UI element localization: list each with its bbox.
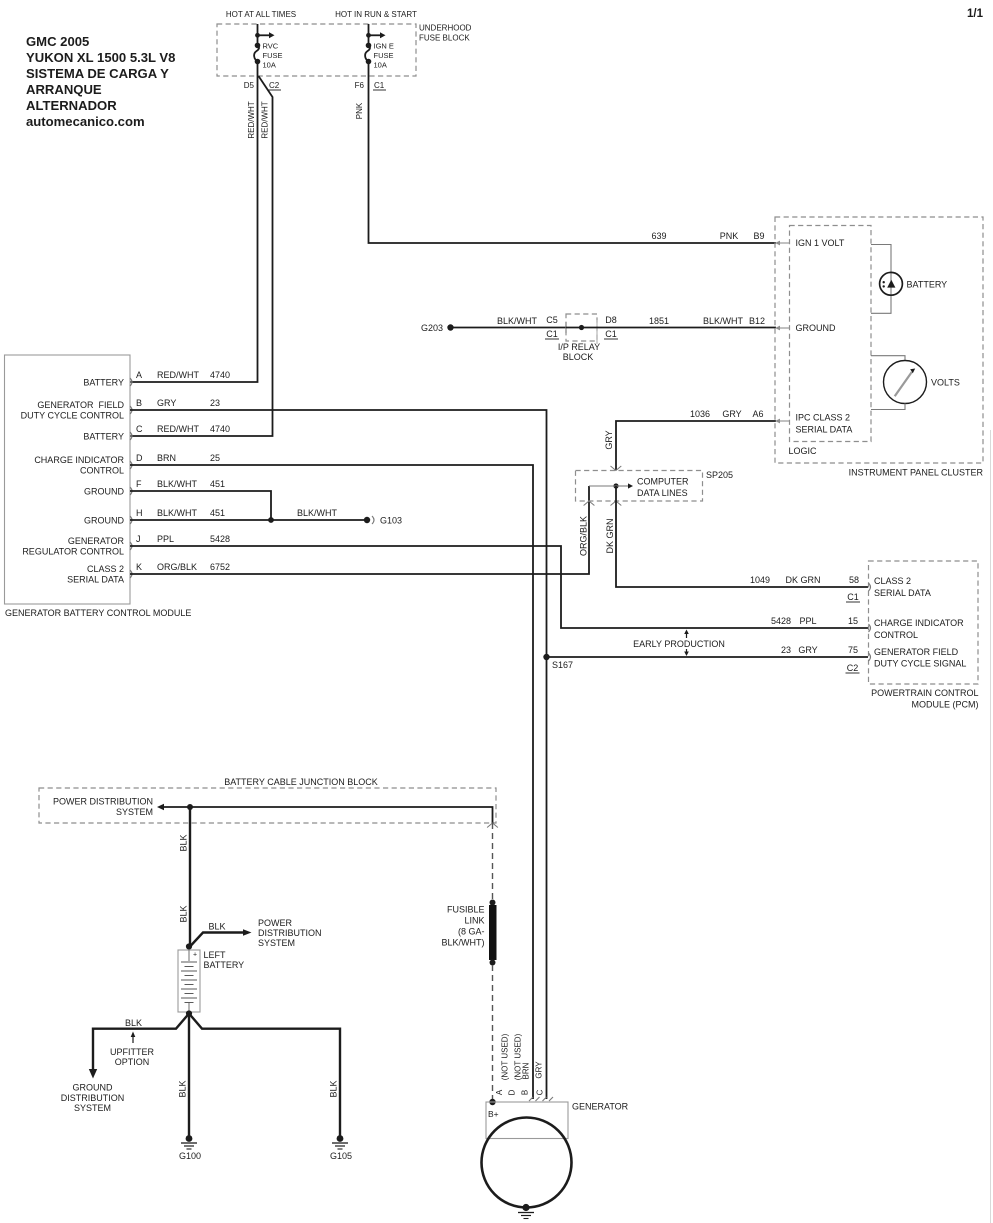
- svg-text:639: 639: [651, 231, 666, 241]
- svg-text:C2: C2: [269, 81, 280, 90]
- svg-text:GRY: GRY: [604, 430, 614, 449]
- svg-text:BLK: BLK: [179, 834, 189, 851]
- wire 1036 GRY (to IPC A6): [616, 421, 776, 470]
- wire BLK (junction to left battery): [189, 807, 191, 947]
- svg-text:HOT IN RUN & START: HOT IN RUN & START: [335, 10, 417, 19]
- svg-text:BLK: BLK: [208, 922, 225, 932]
- svg-text:A6: A6: [752, 409, 763, 419]
- wire K ORG/BLK 6752 (module to SP205): [130, 486, 589, 574]
- svg-text:PNK: PNK: [355, 102, 364, 119]
- svg-text:CHARGE INDICATOR: CHARGE INDICATOR: [34, 455, 124, 465]
- svg-text:B: B: [136, 398, 142, 408]
- svg-text:SERIAL DATA: SERIAL DATA: [796, 425, 853, 435]
- svg-text:POWERTRAIN CONTROL: POWERTRAIN CONTROL: [871, 688, 978, 698]
- svg-text:GMC 2005: GMC 2005: [26, 34, 89, 49]
- arrow to power distribution system: [163, 806, 190, 808]
- svg-text:CLASS 2: CLASS 2: [874, 576, 911, 586]
- svg-text:automecanico.com: automecanico.com: [26, 114, 145, 129]
- volts gauge: [884, 361, 927, 404]
- svg-text:GRY: GRY: [798, 645, 817, 655]
- svg-text:FUSE: FUSE: [263, 51, 283, 60]
- fuse RVC 10A: [244, 24, 283, 90]
- svg-text:GENERATOR BATTERY CONTROL MODU: GENERATOR BATTERY CONTROL MODULE: [5, 608, 191, 618]
- svg-text:SERIAL DATA: SERIAL DATA: [874, 588, 931, 598]
- svg-text:F: F: [136, 479, 142, 489]
- svg-text:23: 23: [781, 645, 791, 655]
- svg-text:DUTY CYCLE SIGNAL: DUTY CYCLE SIGNAL: [874, 659, 966, 669]
- svg-text:I/P RELAY: I/P RELAY: [558, 342, 600, 352]
- svg-text:S167: S167: [552, 660, 573, 670]
- svg-text:BLK: BLK: [125, 1018, 142, 1028]
- svg-text:6752: 6752: [210, 562, 230, 572]
- svg-text:RED/WHT: RED/WHT: [157, 424, 199, 434]
- svg-text:SP205: SP205: [706, 470, 733, 480]
- svg-text:SISTEMA DE CARGA Y: SISTEMA DE CARGA Y: [26, 66, 169, 81]
- wire H BLK/WHT 451 to G103: [130, 519, 367, 521]
- svg-text:SERIAL DATA: SERIAL DATA: [67, 575, 124, 585]
- svg-text:INSTRUMENT PANEL CLUSTER: INSTRUMENT PANEL CLUSTER: [849, 468, 984, 478]
- svg-text:SYSTEM: SYSTEM: [74, 1103, 111, 1113]
- svg-text:GROUND: GROUND: [73, 1083, 113, 1093]
- wire DK GRN 1049 (SP205 to PCM 58): [616, 486, 868, 587]
- svg-text:G105: G105: [330, 1151, 352, 1161]
- svg-text:RED/WHT: RED/WHT: [247, 101, 256, 138]
- wire BLK to G100: [188, 1014, 190, 1137]
- svg-text:POWER: POWER: [258, 918, 293, 928]
- svg-text:ARRANQUE: ARRANQUE: [26, 82, 102, 97]
- svg-text:C1: C1: [374, 81, 385, 90]
- battery cable junction block: [39, 788, 496, 823]
- svg-text:LEFT: LEFT: [204, 950, 227, 960]
- svg-text:(NOT USED): (NOT USED): [501, 1033, 510, 1080]
- svg-text:PPL: PPL: [799, 616, 816, 626]
- svg-text:DK GRN: DK GRN: [605, 518, 615, 553]
- svg-text:5428: 5428: [771, 616, 791, 626]
- svg-text:UNDERHOOD: UNDERHOOD: [419, 24, 472, 33]
- svg-text:LINK: LINK: [464, 916, 484, 926]
- wire J PPL 5428 (module to PCM 15): [130, 546, 868, 628]
- svg-text:15: 15: [848, 616, 858, 626]
- wire RED/WHT 4740 (fuse C2 to module pin C): [130, 76, 273, 436]
- svg-text:DUTY CYCLE CONTROL: DUTY CYCLE CONTROL: [21, 411, 124, 421]
- svg-text:BLK: BLK: [179, 905, 189, 922]
- generator pin ticks: [529, 1097, 540, 1101]
- svg-text:ALTERNADOR: ALTERNADOR: [26, 98, 117, 113]
- svg-text:OPTION: OPTION: [115, 1057, 150, 1067]
- label UPFITTER OPTION with arrow: [132, 1036, 134, 1043]
- svg-text:FUSE: FUSE: [374, 51, 394, 60]
- svg-text:+: +: [193, 952, 197, 959]
- svg-text:A: A: [136, 370, 142, 380]
- generator case ground: [522, 1204, 529, 1211]
- svg-text:FUSIBLE: FUSIBLE: [447, 905, 485, 915]
- svg-text:B+: B+: [488, 1109, 499, 1119]
- svg-text:K: K: [136, 562, 142, 572]
- svg-text:GENERATOR: GENERATOR: [68, 536, 125, 546]
- svg-text:GROUND: GROUND: [84, 487, 124, 497]
- fuse IGN E 10A: [355, 24, 394, 90]
- svg-text:YUKON XL 1500 5.3L V8: YUKON XL 1500 5.3L V8: [26, 50, 175, 65]
- svg-text:75: 75: [848, 645, 858, 655]
- svg-text:GRY: GRY: [722, 409, 741, 419]
- node SP205 junction: [613, 483, 618, 488]
- battery left battery: [186, 943, 192, 949]
- svg-text:G103: G103: [380, 516, 402, 526]
- svg-text:GENERATOR: GENERATOR: [572, 1102, 629, 1112]
- svg-text:FUSE BLOCK: FUSE BLOCK: [419, 34, 470, 43]
- svg-text:BLK/WHT: BLK/WHT: [157, 508, 198, 518]
- svg-text:MODULE (PCM): MODULE (PCM): [912, 700, 979, 710]
- title block: [26, 34, 175, 129]
- svg-text:BLK: BLK: [178, 1080, 188, 1097]
- I/P relay block: [566, 314, 597, 341]
- wire BLK branch to ground distribution system: [93, 1014, 189, 1070]
- wire logic to battery indicator: [871, 245, 891, 314]
- wire BLK to G105: [189, 1014, 340, 1137]
- wire GRY 23 branch (S167 to PCM 75): [547, 656, 869, 658]
- svg-text:5428: 5428: [210, 534, 230, 544]
- svg-text:GROUND: GROUND: [84, 516, 124, 526]
- wire BLK/WHT (G203 to I/P relay block): [451, 327, 567, 329]
- svg-text:F6: F6: [355, 81, 365, 90]
- module pin connector ticks: [130, 378, 132, 578]
- wire BLK branch to power distribution (arrow right): [190, 933, 243, 947]
- svg-text:BATTERY: BATTERY: [83, 378, 124, 388]
- svg-text:B: B: [521, 1090, 530, 1095]
- svg-text:REGULATOR CONTROL: REGULATOR CONTROL: [22, 547, 124, 557]
- svg-text:C5: C5: [546, 315, 558, 325]
- svg-text:J: J: [136, 534, 141, 544]
- svg-text:UPFITTER: UPFITTER: [110, 1047, 154, 1057]
- svg-text:1/1: 1/1: [967, 8, 984, 20]
- svg-text:PNK: PNK: [720, 231, 739, 241]
- svg-text:BLK/WHT): BLK/WHT): [441, 938, 484, 948]
- svg-text:BLK/WHT: BLK/WHT: [297, 508, 338, 518]
- svg-text:BLK/WHT: BLK/WHT: [157, 479, 198, 489]
- svg-text:DK GRN: DK GRN: [785, 575, 820, 585]
- svg-text:PPL: PPL: [157, 534, 174, 544]
- svg-text:CONTROL: CONTROL: [80, 466, 124, 476]
- svg-text:BRN: BRN: [522, 1062, 531, 1079]
- svg-text:GROUND: GROUND: [796, 323, 836, 333]
- instrument panel cluster box: [775, 217, 983, 463]
- svg-text:GENERATOR FIELD: GENERATOR FIELD: [37, 400, 124, 410]
- svg-text:G203: G203: [421, 323, 443, 333]
- svg-text:4740: 4740: [210, 370, 230, 380]
- underhood fuse block box: [217, 10, 472, 76]
- svg-text:D: D: [508, 1089, 517, 1095]
- svg-text:GENERATOR FIELD: GENERATOR FIELD: [874, 647, 959, 657]
- svg-text:B12: B12: [749, 316, 765, 326]
- wire logic to volts gauge: [871, 356, 905, 361]
- svg-text:C: C: [536, 1089, 545, 1095]
- battery indicator lamp: [880, 272, 903, 295]
- wire RED/WHT 4740 (fuse D5 to module pin A): [130, 76, 258, 382]
- svg-text:BLK: BLK: [329, 1080, 339, 1097]
- svg-text:BATTERY: BATTERY: [907, 280, 948, 290]
- wire PNK (fuse F6 to IPC B9): [369, 76, 777, 243]
- node junction block: [187, 804, 193, 810]
- junction F/H: [268, 517, 274, 523]
- svg-text:4740: 4740: [210, 424, 230, 434]
- svg-text:D8: D8: [605, 315, 617, 325]
- svg-text:BATTERY CABLE JUNCTION BLOCK: BATTERY CABLE JUNCTION BLOCK: [224, 777, 378, 787]
- wire B GRY 23 (module to S167 / generator C): [130, 410, 547, 1099]
- svg-text:BRN: BRN: [157, 453, 176, 463]
- wire BLK/WHT 8GA (fusible link to generator B+) dashed: [492, 965, 494, 1100]
- svg-text:EARLY PRODUCTION: EARLY PRODUCTION: [633, 639, 725, 649]
- svg-text:C2: C2: [847, 663, 859, 673]
- svg-text:IPC CLASS 2: IPC CLASS 2: [796, 413, 851, 423]
- generator: [489, 1099, 495, 1105]
- svg-text:RED/WHT: RED/WHT: [261, 101, 270, 138]
- wire junction block to fusible link: [190, 807, 493, 823]
- svg-text:RED/WHT: RED/WHT: [157, 370, 199, 380]
- ground G105: [337, 1135, 344, 1142]
- wire F BLK/WHT 451: [130, 491, 271, 520]
- svg-text:G100: G100: [179, 1151, 201, 1161]
- svg-text:10A: 10A: [263, 61, 276, 70]
- svg-text:IGN 1 VOLT: IGN 1 VOLT: [796, 238, 845, 248]
- node S167: [543, 654, 549, 660]
- svg-text:1049: 1049: [750, 575, 770, 585]
- ground G103: [364, 517, 370, 523]
- svg-text:D: D: [136, 453, 143, 463]
- svg-text:C1: C1: [605, 329, 617, 339]
- svg-text:DISTRIBUTION: DISTRIBUTION: [258, 928, 322, 938]
- svg-text:COMPUTER: COMPUTER: [637, 477, 689, 487]
- svg-text:BATTERY: BATTERY: [204, 960, 245, 970]
- powertrain control module PCM box: [869, 561, 979, 684]
- svg-text:C: C: [136, 424, 143, 434]
- svg-text:IGN E: IGN E: [374, 42, 394, 51]
- svg-text:HOT AT ALL TIMES: HOT AT ALL TIMES: [226, 10, 296, 19]
- svg-text:ORG/BLK: ORG/BLK: [579, 516, 589, 556]
- fusible link: [490, 900, 496, 906]
- svg-text:B9: B9: [753, 231, 764, 241]
- PCM pin connector ticks: [869, 583, 871, 661]
- svg-text:23: 23: [210, 398, 220, 408]
- svg-text:SYSTEM: SYSTEM: [258, 938, 295, 948]
- svg-text:GRY: GRY: [535, 1061, 544, 1079]
- svg-text:BLK/WHT: BLK/WHT: [703, 316, 744, 326]
- svg-text:GRY: GRY: [157, 398, 176, 408]
- svg-text:451: 451: [210, 479, 225, 489]
- svg-text:10A: 10A: [374, 61, 387, 70]
- svg-text:SYSTEM: SYSTEM: [116, 807, 153, 817]
- svg-text:DISTRIBUTION: DISTRIBUTION: [61, 1093, 125, 1103]
- svg-text:H: H: [136, 508, 143, 518]
- logic box: [790, 226, 872, 442]
- svg-text:58: 58: [849, 575, 859, 585]
- generator battery control module U-GBCM: [5, 355, 131, 604]
- svg-text:BLK/WHT: BLK/WHT: [497, 316, 538, 326]
- svg-text:CLASS 2: CLASS 2: [87, 564, 124, 574]
- svg-text:BATTERY: BATTERY: [83, 432, 124, 442]
- svg-text:451: 451: [210, 508, 225, 518]
- ground G100: [186, 1135, 193, 1142]
- svg-text:(8 GA-: (8 GA-: [458, 927, 485, 937]
- splice SP205 computer data lines box: [576, 471, 703, 502]
- svg-text:25: 25: [210, 453, 220, 463]
- svg-text:C1: C1: [847, 592, 859, 602]
- svg-text:BLOCK: BLOCK: [563, 352, 594, 362]
- IPC pin arrows B9 B12 A6: [775, 241, 789, 424]
- svg-text:DATA LINES: DATA LINES: [637, 488, 688, 498]
- svg-text:1851: 1851: [649, 316, 669, 326]
- wire volts gauge to logic: [871, 404, 905, 410]
- svg-text:VOLTS: VOLTS: [931, 378, 960, 388]
- svg-text:A: A: [495, 1089, 504, 1095]
- svg-text:CONTROL: CONTROL: [874, 630, 918, 640]
- wire 1851 BLK/WHT (relay block to IPC B12): [597, 327, 776, 329]
- svg-text:D5: D5: [244, 81, 255, 90]
- svg-text:CHARGE INDICATOR: CHARGE INDICATOR: [874, 618, 964, 628]
- svg-text:RVC: RVC: [263, 42, 279, 51]
- svg-text:POWER DISTRIBUTION: POWER DISTRIBUTION: [53, 797, 153, 807]
- svg-text:C1: C1: [546, 329, 558, 339]
- svg-text:LOGIC: LOGIC: [789, 446, 818, 456]
- svg-text:ORG/BLK: ORG/BLK: [157, 562, 197, 572]
- wire D BRN 25 (module to generator B): [130, 465, 533, 1099]
- wire BLK/WHT 8GA (junction block to fusible link) dashed: [492, 823, 494, 900]
- svg-text:1036: 1036: [690, 409, 710, 419]
